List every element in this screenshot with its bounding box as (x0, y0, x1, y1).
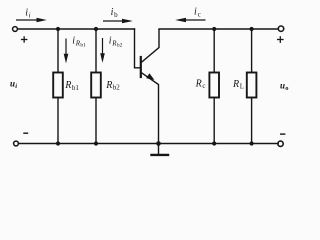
svg-text:b2: b2 (113, 84, 121, 92)
svg-text:b: b (114, 11, 118, 19)
wire top rail from input to base corner (18, 28, 135, 30)
transistor Q1 emitter lead (142, 73, 159, 144)
resistor Rc body (209, 73, 219, 98)
junction dot Rb2 top (94, 27, 98, 31)
current arrow i_c (183, 19, 206, 21)
wire Rc column upper (213, 29, 215, 73)
label + output (cross) (277, 36, 284, 43)
junction dot RL top (250, 27, 254, 31)
label + input (cross) (21, 36, 28, 42)
wire Rc column lower (213, 98, 215, 144)
svg-text:c: c (202, 82, 205, 90)
ground bar (152, 154, 169, 156)
svg-text:b1: b1 (80, 43, 86, 49)
current arrow i_b (103, 20, 125, 22)
ground stub (158, 144, 160, 155)
input terminal bottom circle (14, 141, 19, 146)
output terminal top circle (278, 26, 283, 31)
svg-text:i: i (15, 83, 17, 90)
wire RL column lower (251, 98, 253, 144)
transistor Q1 base bar (140, 57, 142, 77)
svg-text:c: c (198, 10, 201, 18)
wire RL column upper (251, 29, 253, 73)
svg-text:i: i (29, 12, 31, 20)
wire Rb1 column upper (57, 29, 59, 73)
wire bottom rail (19, 143, 279, 145)
svg-text:i: i (194, 6, 197, 17)
resistor RL body (247, 73, 257, 98)
svg-text:b1: b1 (72, 84, 80, 92)
junction dot Rb1 top (56, 27, 60, 31)
resistor Rb1 body (53, 73, 63, 98)
wire Rb2 column upper (95, 29, 97, 73)
transistor Q1 collector lead (142, 30, 159, 63)
svg-text:R: R (105, 80, 112, 91)
wire Rb2 column lower (95, 98, 97, 144)
wire Rb1 column lower (57, 98, 59, 144)
output terminal bottom circle (278, 141, 283, 146)
current arrow i_Rb1 (65, 39, 67, 57)
junction dot Rb2 bottom (94, 141, 98, 145)
svg-text:R: R (232, 79, 239, 90)
wire base lead down and into base (135, 29, 141, 68)
label - input (dash) (23, 132, 28, 134)
transistor Q1 emitter arrow (146, 73, 154, 80)
junction dot RL bottom (250, 141, 254, 145)
svg-text:R: R (64, 80, 71, 91)
resistor Rb2 body (91, 73, 101, 98)
junction dot Rb1 bottom (56, 141, 60, 145)
svg-text:L: L (240, 83, 244, 91)
svg-text:R: R (195, 79, 202, 90)
junction dot Rc bottom (212, 141, 216, 145)
svg-text:o: o (285, 85, 288, 92)
junction dot emitter bottom (156, 141, 161, 146)
svg-text:b2: b2 (117, 43, 123, 49)
current arrow i_Rb2 (102, 38, 104, 56)
wire top rail collector to output (159, 28, 278, 30)
svg-text:u: u (280, 81, 285, 91)
junction dot Rc top (212, 27, 216, 31)
current arrow i_i (16, 19, 39, 21)
label - output (dash) (280, 133, 285, 135)
input terminal top circle (13, 27, 18, 32)
